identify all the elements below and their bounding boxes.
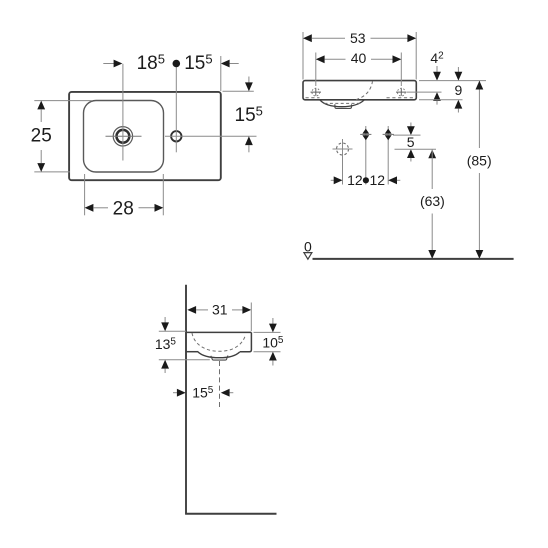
- dim 10.5: lower arrow stem: [272, 360, 274, 365]
- dim 10.5: upper arrowhead: [269, 324, 277, 333]
- drain centerline vertical: [122, 64, 124, 161]
- dim 13.5: lower arrow stem: [164, 369, 166, 374]
- dim 53: right extension: [415, 32, 417, 80]
- dim 25: lower stem: [40, 150, 42, 163]
- svg-text:25: 25: [31, 125, 52, 146]
- dim 15.5 bottom: left stem: [173, 392, 177, 394]
- front drain trap: [335, 104, 352, 108]
- dim 25: top extension line: [34, 100, 92, 102]
- dim 5 upper reference line: [393, 134, 421, 136]
- dim 9 lower arrowhead: [455, 100, 463, 109]
- dim 15.5 right: lower arrow stem: [248, 145, 250, 152]
- svg-text:(85): (85): [467, 152, 492, 168]
- dim 15.5 right: upper arrow stem: [248, 77, 250, 84]
- dim 40: right arrowhead: [393, 55, 402, 63]
- dim 53: left extension: [302, 32, 304, 80]
- dim 10.5: lower arrowhead: [269, 352, 277, 361]
- dim 10.5: upper arrow stem: [272, 318, 274, 324]
- dim 10.5: top extension: [254, 331, 281, 333]
- dim 12-12: left stem: [331, 179, 335, 181]
- dim 53: right stem: [371, 37, 408, 39]
- tap hole circle: [171, 131, 181, 141]
- outlet dashed circle: [337, 143, 349, 155]
- datum 0 triangle: [304, 253, 312, 260]
- dim 25: lower arrowhead: [37, 163, 45, 172]
- dim 25: upper arrowhead: [37, 101, 45, 110]
- dim 31: left stem: [196, 309, 208, 311]
- dim 40: left arrowhead: [316, 55, 325, 63]
- drain outer circle: [113, 127, 132, 146]
- supply anchor left: [360, 126, 371, 142]
- dim 28: left stem: [93, 207, 108, 209]
- dim 40: right stem: [371, 58, 393, 60]
- front hidden rim arc (dashed): [356, 81, 373, 100]
- dim 15.5 right: top extension line: [223, 90, 254, 92]
- wall line: [185, 285, 187, 514]
- dim 4.2 upper arrow stem: [436, 66, 438, 72]
- drain inner circle: [117, 130, 130, 143]
- dim 9 upper arrow stem: [457, 67, 459, 73]
- dim 28: left arrowhead: [85, 204, 94, 212]
- svg-text:(63): (63): [420, 193, 445, 209]
- dim 53: right arrowhead: [407, 34, 416, 42]
- drain crosshair horizontal: [106, 135, 142, 137]
- dim 53: left arrowhead: [303, 34, 312, 42]
- dim (63) lower arrowhead: [428, 250, 436, 259]
- dim 13.5: upper arrowhead: [161, 322, 169, 331]
- dim 15.5 right: upper arrowhead: [245, 82, 253, 91]
- tap crosshair horizontal / right dim extension: [165, 135, 257, 137]
- side hidden rim arc (dashed): [192, 333, 246, 351]
- dim 15.5 top arrowhead: [221, 60, 230, 68]
- floor/base line bottom: [185, 513, 276, 515]
- dim 28: right arrowhead: [155, 204, 164, 212]
- svg-text:12: 12: [347, 172, 363, 188]
- floor line: [313, 258, 514, 260]
- dim 40: left stem: [325, 58, 346, 60]
- dim 31: right extension: [250, 303, 252, 332]
- side bowl underside: [198, 352, 240, 358]
- plan basin inner rim: [84, 101, 164, 173]
- svg-text:40: 40: [351, 50, 367, 66]
- supply anchor right: [383, 126, 394, 142]
- side slab bottom left segment: [186, 351, 198, 353]
- dim (63) line upper: [431, 150, 433, 190]
- dim 25: bottom extension line: [34, 171, 70, 173]
- dim 28: right extension line: [162, 174, 164, 215]
- dim 53: left stem: [312, 37, 345, 39]
- outlet drop extension: [342, 159, 344, 185]
- svg-text:53: 53: [350, 30, 366, 46]
- dim 12-12: right arrowhead: [388, 176, 397, 184]
- dim (85) line upper: [478, 81, 480, 148]
- dim 18.5 arrowhead: [114, 60, 123, 68]
- dim 28: left extension line: [84, 174, 86, 215]
- dim 31: right arrowhead: [242, 306, 251, 314]
- front slab outline: [303, 81, 416, 100]
- front hidden bottom dashed right: [387, 97, 415, 99]
- dim 40: left extension: [315, 53, 317, 87]
- supply anchor right drop line: [387, 142, 389, 185]
- dim shared dot: [173, 60, 181, 68]
- dim 4.2 lower arrowhead: [433, 92, 441, 101]
- dim 15.5 right: lower arrowhead: [245, 136, 253, 145]
- dim 9 lower arrow stem: [457, 109, 459, 113]
- dim 5 upper arrowhead: [407, 126, 415, 135]
- plan right edge extension up: [220, 56, 222, 91]
- front right tap dashed circle: [397, 88, 405, 96]
- svg-text:12: 12: [370, 172, 386, 188]
- svg-text:31: 31: [212, 302, 228, 318]
- dim 12-12: right stem: [397, 179, 400, 181]
- dim 13.5: lower arrowhead: [161, 360, 169, 369]
- dim 5 upper arrow stem: [410, 123, 412, 128]
- front hidden bottom dashed left: [306, 97, 320, 99]
- side slab top edge: [186, 331, 251, 333]
- dim 28: right stem: [139, 207, 155, 209]
- dim 15.5 top stem right: [230, 63, 239, 65]
- slab bottom extension right: [419, 99, 463, 101]
- outlet crosshair horizontal: [333, 148, 353, 150]
- dim 10.5: bottom extension: [254, 351, 281, 353]
- dim 4.2 lower arrow stem: [436, 101, 438, 105]
- dim 31: left arrowhead: [187, 306, 196, 314]
- front basin under-bulge: [320, 100, 365, 107]
- dim 5 lower arrow stem: [410, 158, 412, 162]
- dim 13.5: bottom extension: [159, 359, 210, 361]
- dim (85) line lower: [478, 173, 480, 259]
- tap centerline vertical: [175, 66, 177, 152]
- dim 5 lower arrowhead: [407, 149, 415, 158]
- slab top extension right: [419, 80, 486, 82]
- dim 18.5 stem left: [103, 63, 114, 65]
- outlet crosshair vertical: [342, 139, 344, 159]
- supply anchor left drop line: [365, 142, 367, 185]
- dim 13.5: upper arrow stem: [164, 317, 166, 323]
- svg-text:28: 28: [113, 199, 134, 220]
- dim (63) upper arrowhead: [428, 150, 436, 159]
- dim 5 lower reference line: [395, 148, 437, 150]
- dim 4.2 upper arrowhead: [433, 72, 441, 81]
- dim 9 upper arrowhead: [455, 72, 463, 81]
- front left tap dashed circle: [312, 88, 320, 96]
- dim 25: upper stem: [40, 109, 42, 122]
- side slab right edge: [240, 332, 251, 351]
- dim 13.5: top extension: [159, 330, 186, 332]
- front right tap cross: [396, 89, 407, 96]
- dim (85) lower arrowhead: [476, 250, 484, 259]
- front left tap cross: [311, 89, 322, 96]
- dim 40: right extension: [400, 53, 402, 87]
- dim (63) line lower: [431, 214, 433, 259]
- dim 31: right stem: [232, 309, 243, 311]
- tap height extension right: [407, 91, 442, 93]
- side drain trap: [211, 356, 228, 361]
- dim 15.5 bottom: right stem: [230, 392, 234, 394]
- dim 12-12: left arrowhead: [334, 176, 343, 184]
- svg-text:5: 5: [407, 134, 415, 150]
- side drain axis dashed: [219, 361, 221, 410]
- front basin inner dashed bottom: [325, 102, 361, 104]
- dim 12-12: centre dot: [363, 177, 369, 183]
- plan sink outline: [69, 92, 221, 180]
- dim 15.5 bottom: left arrowhead: [177, 389, 186, 397]
- dim (85) upper arrowhead: [476, 81, 484, 90]
- svg-text:9: 9: [455, 82, 463, 98]
- dim 15.5 bottom: right arrowhead: [221, 389, 230, 397]
